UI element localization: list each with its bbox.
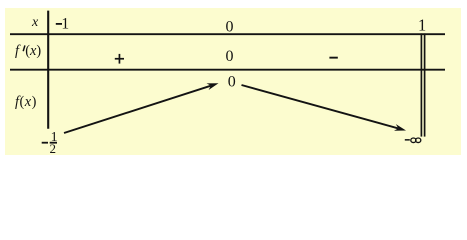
- label f'(x) : prime tick: [23, 45, 25, 51]
- value -infinity : infinity glyph left loop: [411, 138, 416, 143]
- svg-text:0: 0: [228, 74, 236, 91]
- arrow rising head: [207, 83, 219, 90]
- sign minus (f' row): [329, 57, 337, 59]
- header column separator: [47, 11, 49, 129]
- arrow rising shaft: [64, 86, 211, 133]
- arrow falling head: [394, 124, 406, 131]
- value -1/2 fraction: minus stroke: [42, 142, 48, 144]
- svg-text:0: 0: [226, 19, 234, 36]
- arrow falling shaft: [242, 85, 399, 128]
- svg-text:1: 1: [418, 16, 426, 35]
- horizontal rule under f'(x) row: [10, 69, 445, 71]
- svg-text:x: x: [31, 15, 39, 30]
- double bar at x=1 (left): [420, 33, 422, 136]
- svg-text:(x): (x): [25, 43, 41, 59]
- table background card: [5, 8, 461, 155]
- double bar at x=1 (right): [424, 33, 426, 136]
- sign + horizontal stroke: [115, 58, 124, 60]
- svg-text:1: 1: [61, 15, 69, 32]
- svg-text:2: 2: [50, 141, 57, 156]
- sign + vertical stroke: [119, 54, 121, 64]
- value -1 : minus stroke: [56, 23, 62, 25]
- value -infinity : infinity glyph right loop: [416, 138, 421, 143]
- fraction bar: [50, 142, 57, 144]
- horizontal rule under x row: [10, 33, 445, 35]
- svg-text:f(x): f(x): [15, 94, 37, 110]
- value -infinity : minus stroke: [405, 139, 410, 141]
- svg-text:0: 0: [226, 48, 234, 65]
